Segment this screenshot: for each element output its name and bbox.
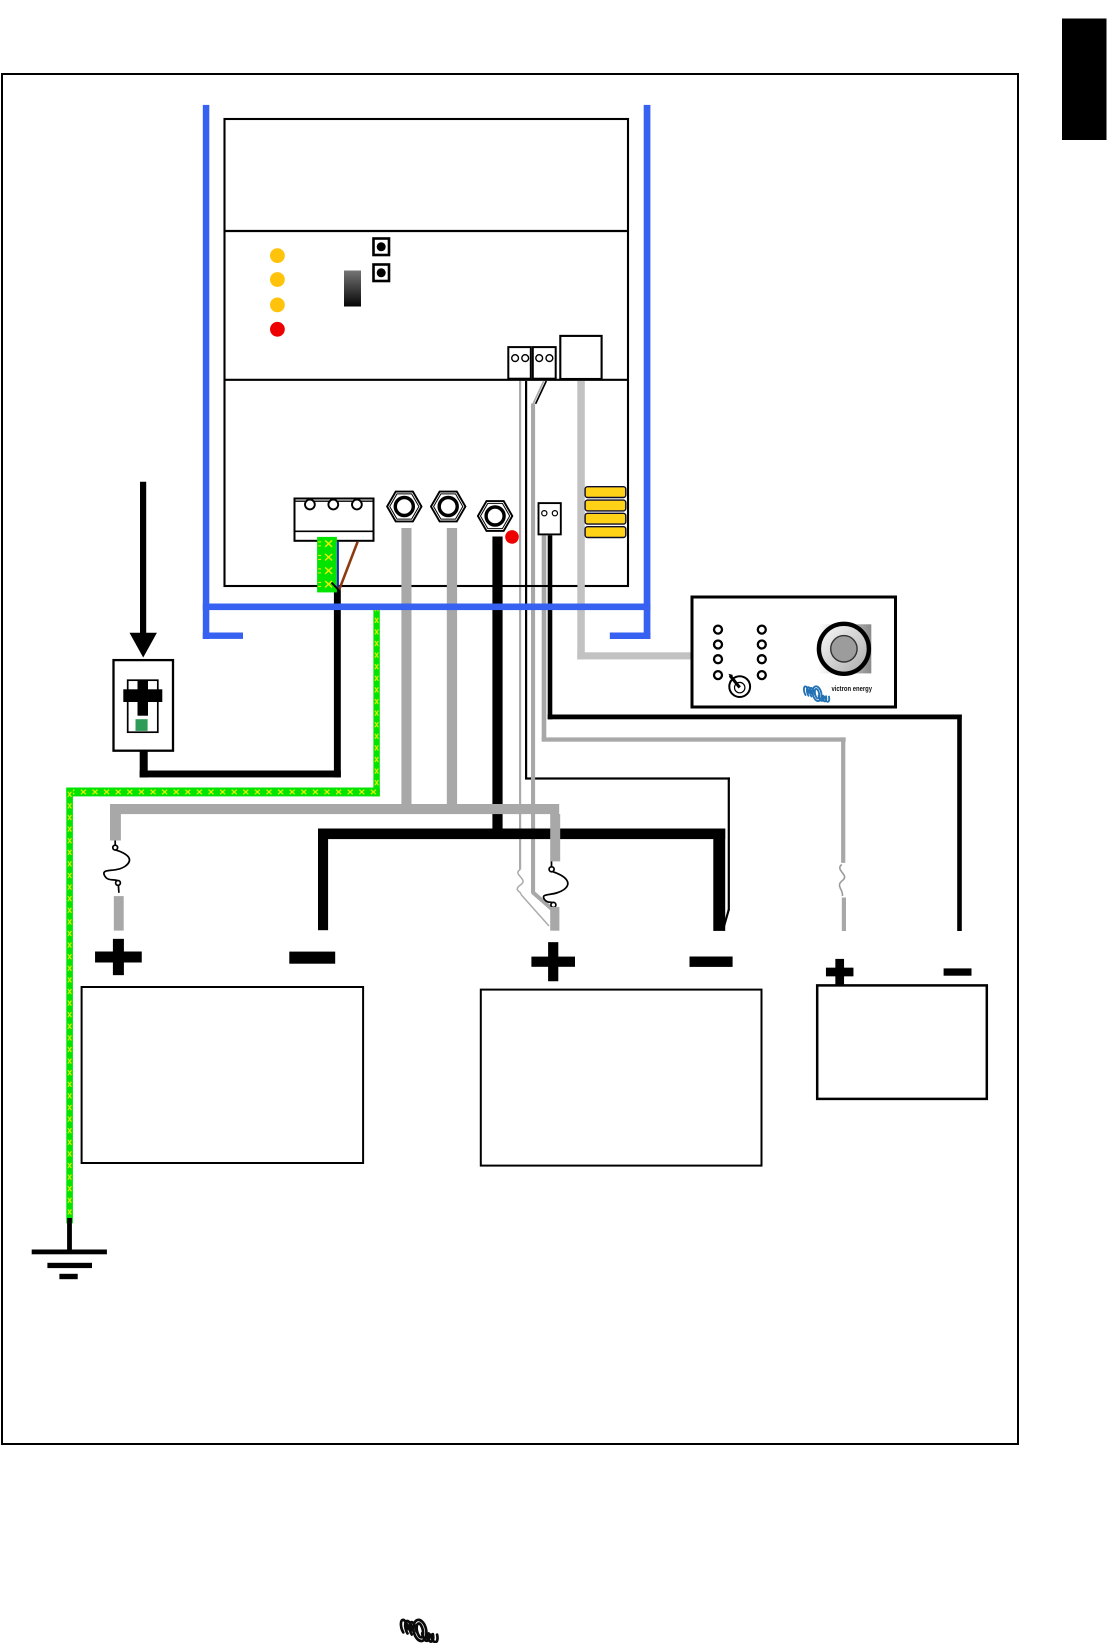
svg-text:victron energy: victron energy	[832, 684, 873, 693]
